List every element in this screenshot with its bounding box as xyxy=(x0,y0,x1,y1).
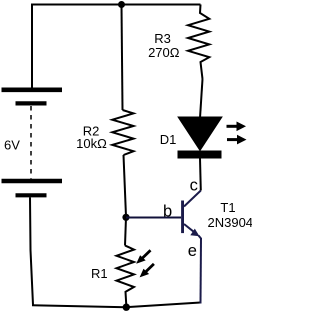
R1 light arrow lower xyxy=(140,264,154,278)
svg-text:R1: R1 xyxy=(91,266,108,281)
LED D1 cathode bar xyxy=(178,151,222,159)
resistor R1 photoresistor xyxy=(117,246,135,306)
svg-text:270Ω: 270Ω xyxy=(148,45,180,60)
wire middle vertical mid xyxy=(124,155,127,217)
wire middle vertical to R1 xyxy=(125,217,126,245)
wire top horizontal xyxy=(32,4,201,6)
wire right vertical lower (emitter to bottom corner) xyxy=(200,238,203,304)
svg-text:T1: T1 xyxy=(220,200,235,215)
wire left vertical upper xyxy=(31,4,33,88)
svg-text:2N3904: 2N3904 xyxy=(208,215,253,230)
LED light arrow lower xyxy=(227,135,247,145)
battery B1 plate negative top xyxy=(16,101,47,105)
wire R3 to LED xyxy=(200,79,203,118)
svg-text:c: c xyxy=(190,177,198,195)
LED D1 triangle anode xyxy=(179,118,221,150)
wire left vertical lower xyxy=(30,197,33,304)
battery dashed link xyxy=(30,106,32,179)
svg-text:e: e xyxy=(188,242,197,260)
svg-text:b: b xyxy=(163,203,172,221)
svg-text:D1: D1 xyxy=(160,132,177,147)
R1 light arrow upper xyxy=(136,250,150,263)
transistor T1 emitter lead with arrow xyxy=(184,224,201,239)
svg-text:10kΩ: 10kΩ xyxy=(76,136,107,151)
battery B1 plate positive top xyxy=(2,88,63,93)
svg-text:R3: R3 xyxy=(154,31,171,46)
node junction top xyxy=(118,1,125,8)
transistor T1 collector lead xyxy=(184,191,201,207)
wire LED to collector xyxy=(199,159,202,191)
resistor R2 xyxy=(112,110,133,155)
wire bottom horizontal xyxy=(32,303,201,308)
battery B1 plate positive bottom xyxy=(2,179,63,184)
wire base xyxy=(126,217,181,219)
battery B1 plate negative bottom xyxy=(16,193,47,197)
svg-text:6V: 6V xyxy=(4,137,20,152)
resistor R3 xyxy=(188,5,209,80)
node junction bottom xyxy=(123,304,130,311)
wire middle vertical upper xyxy=(122,5,123,110)
LED light arrow upper xyxy=(227,122,247,132)
node junction base xyxy=(122,214,129,221)
transistor T1 base bar xyxy=(181,201,184,234)
